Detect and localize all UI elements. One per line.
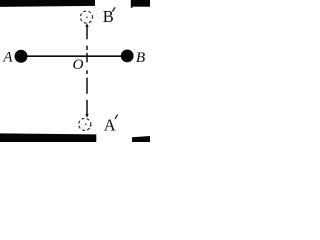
node B' (dashed circle) [80, 11, 92, 23]
up arrowhead [85, 23, 88, 27]
svg-text:B: B [136, 49, 145, 66]
node B' center dot [86, 17, 88, 19]
node B (filled dot) [121, 50, 134, 63]
svg-text:A: A [104, 116, 116, 135]
node A' center dot [85, 123, 87, 125]
bottom-left black bar [0, 133, 96, 142]
wire: dash segment [86, 46, 88, 50]
node A (filled dot) [15, 50, 28, 63]
svg-text:A: A [2, 49, 13, 66]
node A' (dashed circle) [79, 118, 91, 130]
top-right black bar [131, 0, 150, 7]
wire: up arrow shaft toward B' [86, 26, 88, 39]
bottom-right black bar [132, 136, 150, 142]
svg-text:O: O [73, 56, 84, 73]
wire: horizontal segment AB [24, 55, 124, 57]
down arrowhead [85, 114, 88, 118]
wire: long solid segment [86, 78, 88, 94]
top-left black bar [0, 0, 95, 7]
svg-text:B: B [103, 7, 114, 26]
wire: dash segment [86, 70, 88, 74]
wire: solid segment across O [86, 53, 88, 62]
stray period dot [90, 125, 92, 127]
wire: down arrow shaft toward A' [86, 100, 88, 115]
